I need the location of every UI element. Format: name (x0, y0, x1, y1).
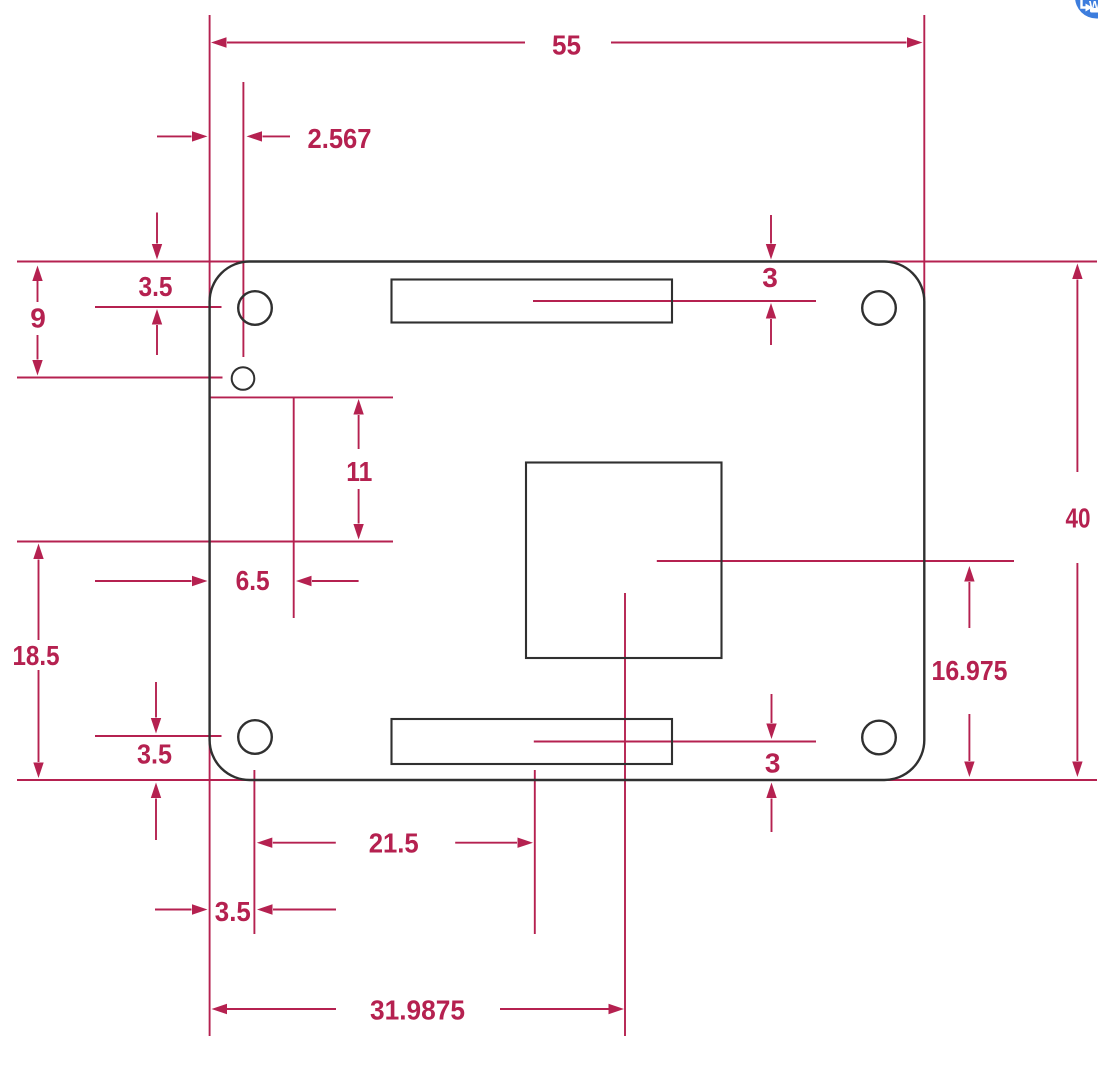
extension line: bottom slot center (y=741.5) (534, 741, 816, 743)
dimension 40 (board height) (1066, 264, 1091, 778)
dimension 3.5 (bottom-left hole from bottom edge) (137, 682, 172, 840)
svg-text:55: 55 (552, 30, 581, 61)
dimension 9 (left, top edge to small hole) (30, 266, 46, 376)
extension line: board left edge (x=209.6) (209, 15, 211, 1036)
extension line: square center (y=561) (657, 560, 1014, 562)
mounting hole bottom-right (862, 721, 896, 755)
dimension 6.5 (95, 565, 359, 596)
extension line: board right edge (x=924.3) (923, 15, 925, 300)
dimension 2.567 (small hole x offset) (157, 123, 372, 154)
browser translate icon (top-right) (1075, 0, 1098, 19)
svg-text:9: 9 (30, 303, 46, 334)
extension line: 2.567 hole offset (x=243.4) (242, 82, 244, 357)
dimension 3 (bottom slot from bottom edge) (765, 694, 781, 832)
mounting hole bottom-left (238, 720, 272, 754)
svg-text:31.9875: 31.9875 (370, 995, 465, 1026)
extension line: square center (x=625) (624, 593, 626, 1036)
extension line: bottom-left hole center (y=736) (95, 735, 222, 737)
top slot (392, 280, 673, 323)
extension line: board bottom edge (y=780) (17, 779, 1097, 781)
mounting hole top-left (238, 291, 272, 325)
svg-text:3: 3 (762, 262, 778, 293)
extension line: y=541.5 (17, 541, 393, 543)
svg-text:2.567: 2.567 (308, 123, 372, 154)
extension line: top slot center (y=301) (533, 300, 816, 302)
dimension 55 (board width) (211, 30, 923, 61)
svg-text:40: 40 (1066, 503, 1091, 534)
extension line: bottom-left hole center (x=254.4) (253, 770, 255, 934)
dimension 31.9875 (212, 995, 625, 1026)
svg-text:11: 11 (346, 456, 372, 487)
svg-text:3.5: 3.5 (137, 739, 172, 770)
extension line: top-left hole center (y=307) (95, 306, 222, 308)
extension line: small hole center (y=377.5) (17, 377, 223, 379)
dimension 3.5 (bottom hole x offset) (155, 896, 336, 927)
dimension 3.5 (top-left hole from top edge) (139, 213, 173, 356)
svg-text:21.5: 21.5 (369, 828, 419, 859)
mounting hole top-right (862, 291, 896, 325)
dimension 18.5 (left, to bottom edge) (13, 544, 60, 779)
extension line: 6.5 offset (x=293.7) (293, 397, 295, 618)
board outline (210, 262, 925, 781)
svg-text:16.975: 16.975 (932, 655, 1008, 686)
svg-text:3.5: 3.5 (139, 271, 173, 302)
svg-text:6.5: 6.5 (236, 565, 270, 596)
chip square (526, 463, 722, 659)
extension line: board top edge (y=261.5) (17, 261, 1097, 263)
svg-text:3: 3 (765, 748, 781, 779)
dimension 3 (top slot from top edge) (762, 215, 778, 345)
dimension 21.5 (257, 828, 533, 859)
dimension 11 (346, 399, 372, 540)
svg-text:3.5: 3.5 (215, 896, 251, 927)
extension line: bottom slot center (x=534.8) (534, 770, 536, 934)
extension line: y=397.4 (210, 396, 393, 398)
small fiducial hole (232, 367, 255, 390)
dimension 16.975 (square center to bottom edge) (932, 566, 1008, 777)
bottom slot (392, 719, 673, 764)
svg-text:18.5: 18.5 (13, 640, 60, 671)
